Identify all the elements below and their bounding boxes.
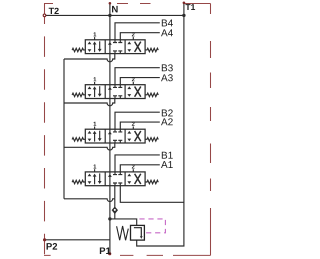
wire relief inlet from P1 junction [110,219,137,226]
enclosure dashed boundary [44,4,211,256]
node junction P1 and relief inlet [108,217,111,220]
wire section1 gallery link with hop over N [64,54,115,62]
pilot line dashed [139,219,165,233]
boundary top edge [44,3,211,5]
wire section2 gallery link with hop over N [64,99,115,106]
label B2 [162,109,173,116]
wire check valve branch down to relief junction [114,199,116,219]
label A4 [161,29,173,36]
wire section4 drain to T1 [120,186,184,203]
wire left feed gallery [63,59,65,199]
label P1 [100,247,111,254]
label A1 [161,161,173,168]
relief spring [117,226,129,240]
label T2 [49,8,59,14]
check valve CV1 [112,207,118,215]
port N [109,2,112,5]
boundary right edge [210,4,212,256]
relief valve RV1 [117,225,145,240]
wire section4 gallery link with hop over N [64,186,115,202]
port P1 [108,252,111,255]
boundary left edge [44,4,46,256]
valve section V3 (ports B3/A3) [72,68,160,99]
valve section V4 (ports B4/A4) [72,23,160,54]
wire section3 gallery link with hop over N [64,143,115,150]
label A3 [161,74,173,81]
label P2 [47,243,58,250]
node junction N and top tank line [108,14,111,17]
node junction top tank line and T1 [182,14,185,17]
wire T1 vertical and bottom return to relief outlet [137,2,184,246]
port T2 [43,14,46,17]
wire P2 inlet line [45,239,110,241]
valve section V1 (ports B1/A1) [72,155,160,186]
label B1 [162,152,173,159]
wire N / open-center vertical gallery [109,3,111,253]
label A2 [161,118,173,125]
label B4 [162,20,173,27]
label B3 [162,64,173,71]
valve section V2 (ports B2/A2) [72,112,160,143]
wire top tank line T2-T1 [45,14,184,16]
label N [112,6,118,13]
port T1 [183,2,186,5]
port P2 [43,238,46,241]
label T1 [185,4,195,10]
boundary bottom edge [44,254,211,256]
